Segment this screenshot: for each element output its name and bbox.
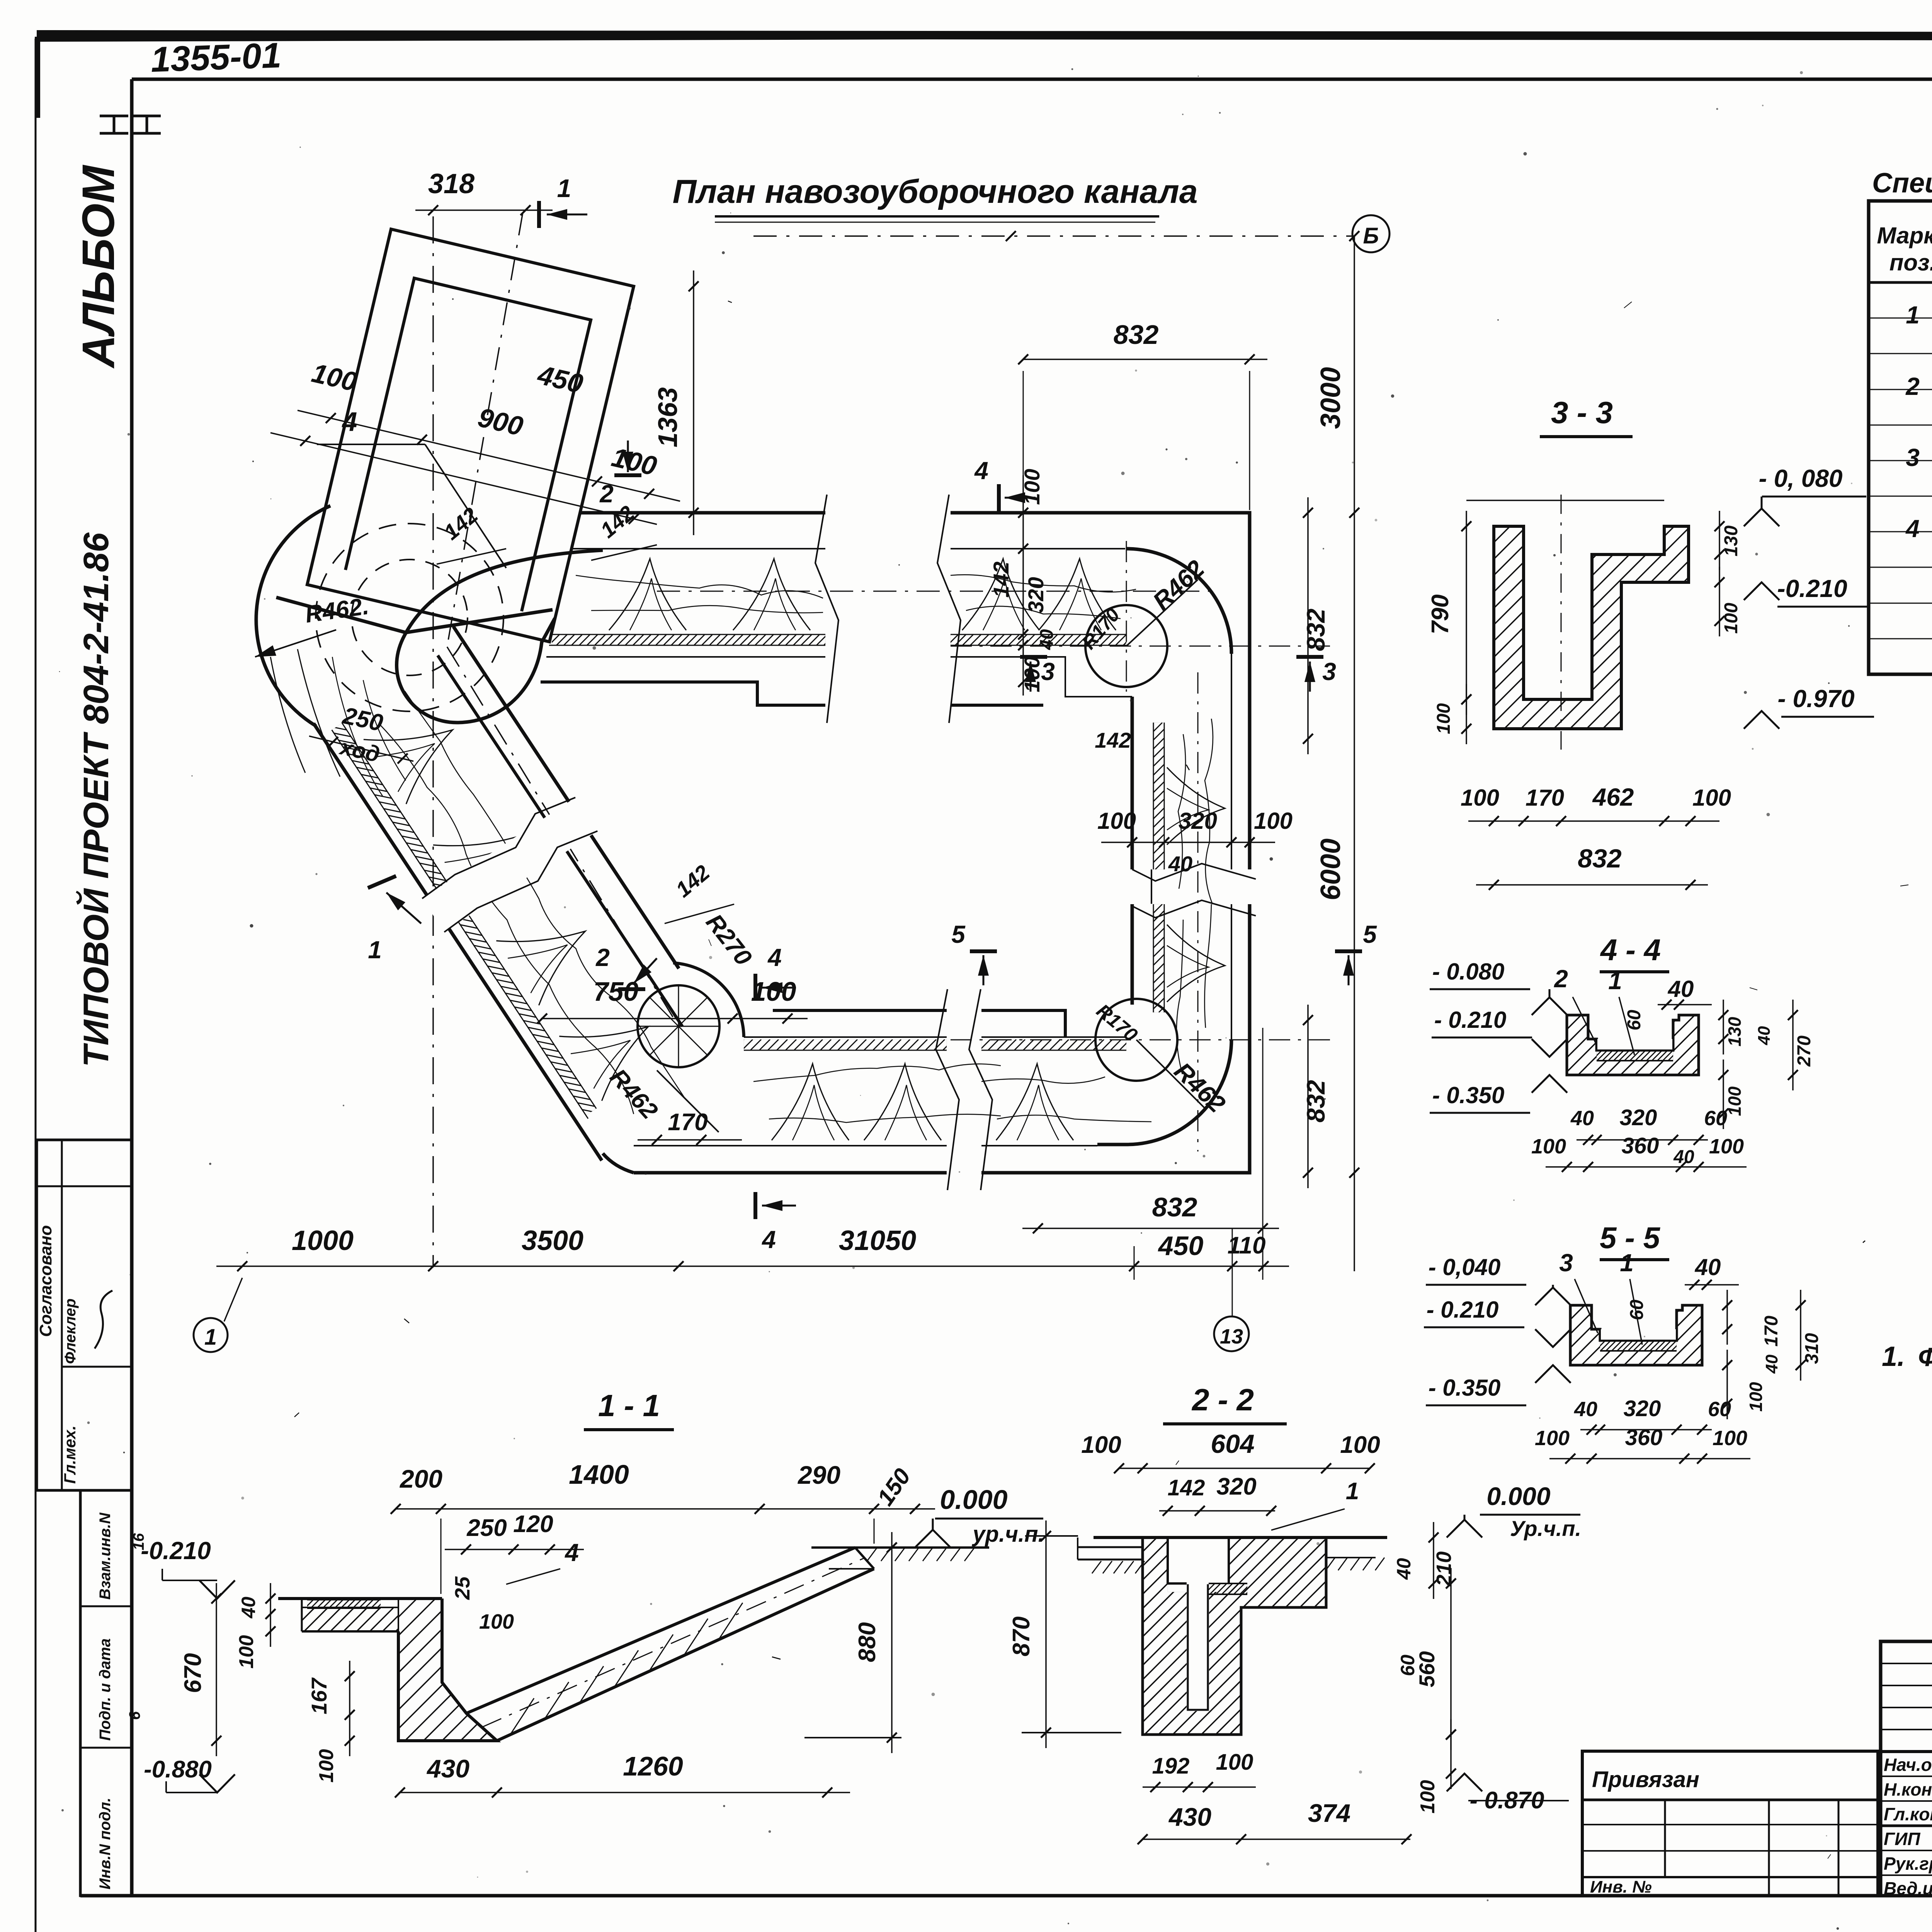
svg-text:Нач.отд: Нач.отд bbox=[1884, 1755, 1932, 1775]
svg-text:2: 2 bbox=[1905, 372, 1920, 400]
svg-text:0.000: 0.000 bbox=[1486, 1482, 1550, 1510]
svg-text:5: 5 bbox=[951, 920, 966, 948]
svg-text:1: 1 bbox=[1608, 967, 1622, 995]
svg-text:1.: 1. bbox=[1882, 1341, 1905, 1372]
svg-text:4 - 4: 4 - 4 bbox=[1600, 933, 1661, 967]
svg-text:120: 120 bbox=[513, 1511, 553, 1537]
svg-text:310: 310 bbox=[1802, 1333, 1822, 1364]
svg-text:Рук.гр.: Рук.гр. bbox=[1884, 1854, 1932, 1874]
svg-text:100: 100 bbox=[479, 1610, 514, 1633]
svg-text:100: 100 bbox=[1340, 1432, 1380, 1458]
svg-text:31050: 31050 bbox=[839, 1225, 916, 1256]
svg-text:Фундаменты под звездочки и: Фундаменты под звездочки и стенки канало… bbox=[1918, 1342, 1932, 1372]
svg-text:167: 167 bbox=[307, 1677, 331, 1714]
svg-text:832: 832 bbox=[1114, 320, 1159, 350]
svg-text:100: 100 bbox=[1097, 808, 1136, 834]
svg-text:3: 3 bbox=[1906, 444, 1920, 471]
svg-text:1 - 1: 1 - 1 bbox=[598, 1388, 660, 1423]
svg-text:192: 192 bbox=[1152, 1753, 1190, 1779]
svg-text:4: 4 bbox=[974, 457, 988, 485]
svg-text:60: 60 bbox=[1708, 1398, 1731, 1421]
svg-text:100: 100 bbox=[1531, 1135, 1566, 1158]
svg-text:Н.контр: Н.контр bbox=[1884, 1779, 1932, 1799]
svg-text:100: 100 bbox=[1709, 1135, 1744, 1158]
svg-text:670: 670 bbox=[180, 1653, 206, 1693]
svg-text:100: 100 bbox=[1721, 603, 1742, 634]
svg-text:170: 170 bbox=[1761, 1316, 1782, 1347]
svg-text:Согласовано: Согласовано bbox=[36, 1225, 55, 1337]
svg-text:- 0.350: - 0.350 bbox=[1432, 1082, 1505, 1108]
svg-text:320: 320 bbox=[1624, 1396, 1661, 1421]
svg-text:2 - 2: 2 - 2 bbox=[1191, 1383, 1254, 1417]
svg-text:200: 200 bbox=[399, 1464, 442, 1493]
svg-text:100: 100 bbox=[1746, 1382, 1766, 1412]
svg-text:поз.: поз. bbox=[1889, 250, 1932, 276]
svg-text:40: 40 bbox=[1168, 852, 1192, 876]
svg-text:100: 100 bbox=[751, 976, 796, 1007]
svg-text:1000: 1000 bbox=[292, 1225, 354, 1256]
svg-text:- 0, 080: - 0, 080 bbox=[1759, 464, 1842, 492]
svg-text:170: 170 bbox=[668, 1109, 707, 1136]
svg-text:- 0.210: - 0.210 bbox=[1427, 1297, 1499, 1323]
svg-text:- 0.970: - 0.970 bbox=[1777, 685, 1854, 713]
svg-text:План навозоуборочного канала: План навозоуборочного канала bbox=[672, 173, 1197, 210]
svg-text:-0.210: -0.210 bbox=[141, 1537, 211, 1565]
svg-text:4: 4 bbox=[564, 1539, 579, 1566]
svg-text:130: 130 bbox=[1725, 1017, 1745, 1046]
svg-text:320: 320 bbox=[1024, 577, 1048, 613]
svg-text:40: 40 bbox=[1037, 629, 1057, 650]
svg-text:-0.210: -0.210 bbox=[1777, 575, 1847, 602]
svg-text:290: 290 bbox=[797, 1461, 840, 1489]
svg-text:-0.880: -0.880 bbox=[144, 1756, 212, 1783]
svg-text:60: 60 bbox=[1704, 1107, 1727, 1130]
svg-text:100: 100 bbox=[1535, 1427, 1570, 1450]
svg-text:6000: 6000 bbox=[1315, 838, 1346, 900]
svg-text:40: 40 bbox=[1762, 1354, 1781, 1374]
svg-text:40: 40 bbox=[238, 1597, 259, 1619]
svg-text:1400: 1400 bbox=[569, 1459, 629, 1490]
svg-text:60: 60 bbox=[1627, 1299, 1647, 1320]
svg-text:4: 4 bbox=[761, 1226, 776, 1253]
svg-text:Взам.инв.N: Взам.инв.N bbox=[97, 1512, 114, 1600]
svg-text:832: 832 bbox=[1301, 609, 1330, 651]
svg-text:40: 40 bbox=[1755, 1026, 1774, 1045]
svg-text:100: 100 bbox=[1081, 1432, 1121, 1458]
svg-text:430: 430 bbox=[1168, 1803, 1211, 1831]
svg-text:6: 6 bbox=[126, 1711, 143, 1720]
svg-text:3500: 3500 bbox=[522, 1225, 583, 1256]
svg-text:3: 3 bbox=[1559, 1249, 1573, 1277]
svg-text:130: 130 bbox=[1721, 526, 1742, 556]
svg-text:270: 270 bbox=[1794, 1036, 1815, 1067]
svg-text:320: 320 bbox=[1216, 1473, 1256, 1500]
svg-text:790: 790 bbox=[1427, 594, 1454, 634]
svg-text:13: 13 bbox=[1220, 1325, 1243, 1348]
svg-text:4: 4 bbox=[1905, 515, 1920, 543]
svg-text:1355-01: 1355-01 bbox=[150, 36, 282, 80]
svg-text:318: 318 bbox=[428, 168, 474, 199]
svg-text:100: 100 bbox=[1254, 808, 1293, 834]
svg-text:100: 100 bbox=[1692, 785, 1731, 811]
svg-text:- 0,040: - 0,040 bbox=[1429, 1254, 1501, 1280]
svg-text:110: 110 bbox=[1228, 1232, 1266, 1259]
svg-text:360: 360 bbox=[1622, 1133, 1659, 1158]
svg-text:3 - 3: 3 - 3 bbox=[1551, 395, 1613, 430]
svg-text:374: 374 bbox=[1308, 1799, 1350, 1827]
svg-text:ТИПОВОЙ ПРОЕКТ 804-2-41.86: ТИПОВОЙ ПРОЕКТ 804-2-41.86 bbox=[75, 532, 116, 1067]
svg-text:40: 40 bbox=[1574, 1398, 1597, 1421]
svg-text:- 0.080: - 0.080 bbox=[1432, 959, 1505, 985]
svg-text:Гл.кон.от: Гл.кон.от bbox=[1884, 1804, 1932, 1824]
svg-text:40: 40 bbox=[1673, 1147, 1694, 1167]
svg-text:100: 100 bbox=[1461, 785, 1499, 811]
svg-text:60: 60 bbox=[1624, 1010, 1645, 1031]
svg-text:604: 604 bbox=[1211, 1429, 1254, 1459]
svg-text:Инв. №: Инв. № bbox=[1590, 1878, 1652, 1896]
svg-text:100: 100 bbox=[1713, 1427, 1747, 1450]
svg-text:100: 100 bbox=[1417, 1780, 1439, 1814]
svg-text:0.000: 0.000 bbox=[940, 1485, 1007, 1515]
svg-text:Флеклер: Флеклер bbox=[62, 1298, 79, 1364]
svg-text:1: 1 bbox=[1620, 1249, 1634, 1277]
svg-text:- 0.350: - 0.350 bbox=[1429, 1375, 1501, 1401]
svg-text:1: 1 bbox=[557, 174, 571, 202]
svg-text:870: 870 bbox=[1008, 1616, 1035, 1656]
svg-text:560: 560 bbox=[1415, 1651, 1439, 1687]
svg-text:4: 4 bbox=[342, 406, 357, 437]
svg-text:320: 320 bbox=[1620, 1105, 1657, 1130]
svg-text:40: 40 bbox=[1668, 976, 1694, 1002]
svg-text:1: 1 bbox=[368, 936, 382, 964]
svg-text:5: 5 bbox=[1363, 920, 1377, 948]
svg-text:320: 320 bbox=[1179, 808, 1217, 834]
svg-text:100: 100 bbox=[315, 1749, 338, 1783]
svg-text:Подп. и дата: Подп. и дата bbox=[97, 1638, 114, 1741]
svg-text:Привязан: Привязан bbox=[1592, 1767, 1699, 1792]
svg-text:ГИП: ГИП bbox=[1884, 1829, 1920, 1849]
svg-text:40: 40 bbox=[1393, 1558, 1415, 1580]
svg-text:880: 880 bbox=[854, 1622, 881, 1662]
svg-text:40: 40 bbox=[1570, 1107, 1594, 1130]
svg-text:4: 4 bbox=[767, 944, 782, 971]
svg-text:Марка: Марка bbox=[1877, 223, 1932, 248]
svg-text:Б: Б bbox=[1363, 223, 1379, 248]
svg-text:450: 450 bbox=[1158, 1231, 1204, 1261]
svg-text:3: 3 bbox=[1322, 658, 1336, 685]
svg-text:1: 1 bbox=[204, 1325, 217, 1350]
svg-text:142: 142 bbox=[1095, 728, 1131, 752]
svg-text:40: 40 bbox=[1695, 1254, 1721, 1280]
svg-text:832: 832 bbox=[1152, 1192, 1197, 1222]
svg-text:1363: 1363 bbox=[653, 387, 683, 447]
svg-text:3000: 3000 bbox=[1315, 367, 1346, 429]
svg-text:750: 750 bbox=[594, 976, 639, 1007]
svg-text:2: 2 bbox=[595, 944, 610, 971]
svg-text:1260: 1260 bbox=[623, 1751, 683, 1781]
svg-text:Гл.мех.: Гл.мех. bbox=[61, 1425, 79, 1484]
svg-text:832: 832 bbox=[1301, 1080, 1330, 1122]
svg-text:Ур.ч.п.: Ур.ч.п. bbox=[1510, 1516, 1581, 1541]
svg-text:Вед.инж.: Вед.инж. bbox=[1884, 1878, 1932, 1898]
svg-text:3: 3 bbox=[1041, 658, 1055, 685]
svg-text:360: 360 bbox=[1625, 1425, 1663, 1450]
svg-text:100: 100 bbox=[1216, 1750, 1253, 1775]
svg-text:100: 100 bbox=[1725, 1086, 1745, 1116]
svg-text:1: 1 bbox=[1906, 301, 1920, 329]
svg-text:Инв.N подл.: Инв.N подл. bbox=[97, 1798, 114, 1889]
svg-text:430: 430 bbox=[426, 1754, 469, 1783]
svg-text:100: 100 bbox=[1434, 703, 1454, 734]
svg-text:2: 2 bbox=[599, 480, 614, 508]
svg-text:100: 100 bbox=[235, 1635, 258, 1669]
svg-text:250: 250 bbox=[466, 1515, 507, 1541]
svg-text:25: 25 bbox=[451, 1576, 474, 1600]
svg-text:1: 1 bbox=[1346, 1478, 1359, 1505]
svg-text:170: 170 bbox=[1526, 785, 1564, 811]
svg-text:462: 462 bbox=[1592, 783, 1634, 811]
svg-text:142: 142 bbox=[989, 561, 1013, 597]
svg-text:832: 832 bbox=[1578, 844, 1622, 873]
svg-text:АЛЬБОМ: АЛЬБОМ bbox=[73, 165, 124, 369]
svg-text:142: 142 bbox=[1168, 1475, 1205, 1500]
svg-text:Спецификация материалов наво: Спецификация материалов навозоуборочного… bbox=[1872, 168, 1932, 199]
svg-text:- 0.210: - 0.210 bbox=[1434, 1007, 1507, 1033]
svg-text:ур.ч.п.: ур.ч.п. bbox=[971, 1522, 1044, 1547]
svg-text:2: 2 bbox=[1554, 965, 1568, 993]
